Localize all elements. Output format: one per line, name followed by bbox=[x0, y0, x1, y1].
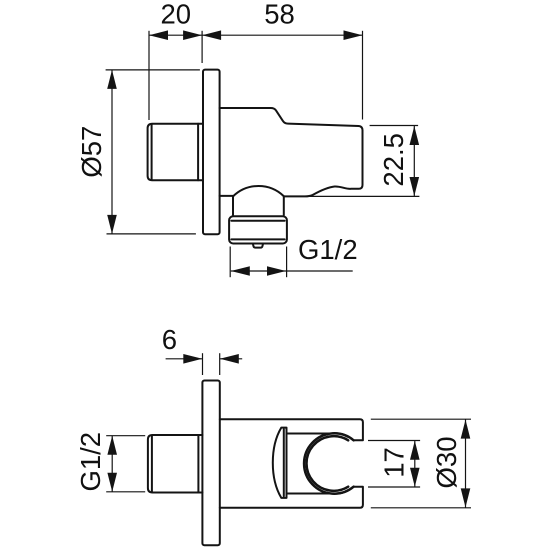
dim Ø30 top extension bbox=[371, 418, 471, 420]
svg-text:6: 6 bbox=[162, 324, 177, 355]
svg-text:G1/2: G1/2 bbox=[75, 432, 106, 492]
dim 6 right line bbox=[220, 358, 242, 360]
upper arm inner edge (bottom view) bbox=[287, 433, 335, 435]
arrow outlet G1/2 right bbox=[267, 266, 286, 276]
svg-text:22.5: 22.5 bbox=[378, 133, 409, 187]
dim G1/2 outlet dimension line with leader bbox=[231, 270, 353, 272]
svg-text:20: 20 bbox=[161, 0, 192, 30]
dim Ø57 dimension line bbox=[111, 70, 113, 234]
dim 22.5 top extension bbox=[370, 125, 419, 127]
ext line left of dim 20 bbox=[148, 31, 150, 120]
dim G1/2 inlet dimension line bbox=[111, 436, 113, 492]
thread end line (bottom view) bbox=[197, 435, 199, 493]
nut inner bottom line bbox=[231, 238, 284, 240]
svg-text:G1/2: G1/2 bbox=[298, 234, 358, 265]
dim G1/2 inlet bottom extension bbox=[106, 491, 145, 493]
dim Ø30 dimension line bbox=[465, 419, 467, 508]
inlet thread block G1/2 (bottom view) bbox=[148, 435, 203, 493]
arrow dim20 right bbox=[183, 30, 202, 40]
wall plate (bottom view) bbox=[202, 381, 219, 546]
outlet nipple tab bbox=[253, 244, 263, 248]
body bottom edge left of outlet (top view) bbox=[220, 195, 233, 197]
dim 6 left extension bbox=[202, 353, 204, 375]
arrow inlet G1/2 top bbox=[107, 436, 117, 455]
dim 17 bottom extension bbox=[368, 486, 420, 488]
holder nose cone (bottom view) bbox=[273, 428, 287, 498]
arrow inlet G1/2 bottom bbox=[107, 473, 117, 492]
dim 6 left line bbox=[166, 358, 203, 360]
thread chamfer line (top view) bbox=[151, 125, 153, 180]
holder body outline with clip slot (bottom view) bbox=[220, 419, 363, 508]
svg-text:Ø30: Ø30 bbox=[431, 437, 462, 489]
dim 20/58 shared dimension line bbox=[149, 34, 363, 36]
arrow dim6 left bbox=[183, 354, 202, 364]
thread end line (top view) bbox=[197, 124, 199, 181]
arrow dim58 left bbox=[202, 30, 221, 40]
arrow dim6 right bbox=[220, 354, 239, 364]
arrow dim58 right bbox=[344, 30, 363, 40]
arrow dim17 bottom bbox=[410, 468, 420, 487]
svg-text:58: 58 bbox=[264, 0, 295, 30]
ext line right of dim 58 bbox=[362, 31, 364, 120]
arrow dim57 bottom bbox=[107, 215, 117, 234]
arrow dim20 left bbox=[149, 30, 168, 40]
arrow dim30 top bbox=[461, 420, 471, 439]
thread chamfer line (bottom view) bbox=[151, 436, 153, 492]
svg-text:Ø57: Ø57 bbox=[76, 126, 107, 178]
nose cone inner line (bottom view) bbox=[283, 429, 285, 496]
arrow dim30 bottom bbox=[461, 488, 471, 507]
clip inner arc (bottom view) bbox=[307, 436, 349, 491]
dim 6 right extension bbox=[219, 353, 221, 375]
lower arm inner edge (bottom view) bbox=[287, 493, 335, 495]
dim G1/2 outlet left extension bbox=[229, 247, 231, 278]
dim Ø57 top extension bbox=[106, 69, 200, 71]
dim Ø57 bottom extension bbox=[107, 233, 196, 235]
holder body outline (top view) bbox=[220, 108, 363, 196]
dim 17 dimension line bbox=[414, 441, 416, 488]
outlet nut (top view) bbox=[229, 216, 287, 243]
clip cradle arc (bottom view) bbox=[304, 433, 354, 493]
svg-text:17: 17 bbox=[379, 447, 410, 478]
dim 22.5 dimension line bbox=[413, 126, 415, 197]
outlet neck left edge (top view) bbox=[232, 196, 234, 215]
inlet thread block G1/2 (top view) bbox=[148, 124, 203, 181]
dim Ø30 bottom extension bbox=[371, 507, 471, 509]
outlet neck right edge (top view) bbox=[283, 196, 285, 215]
nut inner top line bbox=[231, 220, 284, 222]
ext line between dims 20 and 58 bbox=[201, 31, 203, 63]
arrow dim22.5 bottom bbox=[410, 177, 420, 196]
arrow outlet G1/2 left bbox=[231, 266, 250, 276]
arrow dim57 top bbox=[107, 70, 117, 89]
dim 17 top extension bbox=[368, 440, 420, 442]
dim 22.5 bottom extension bbox=[305, 195, 419, 197]
outlet fillet dome (top view) bbox=[233, 186, 284, 196]
arrow dim17 top bbox=[410, 441, 420, 460]
dim G1/2 outlet right extension bbox=[286, 247, 288, 278]
wall plate (top view) bbox=[203, 70, 220, 235]
arrow dim22.5 top bbox=[410, 126, 420, 145]
dim G1/2 inlet top extension bbox=[106, 435, 145, 437]
